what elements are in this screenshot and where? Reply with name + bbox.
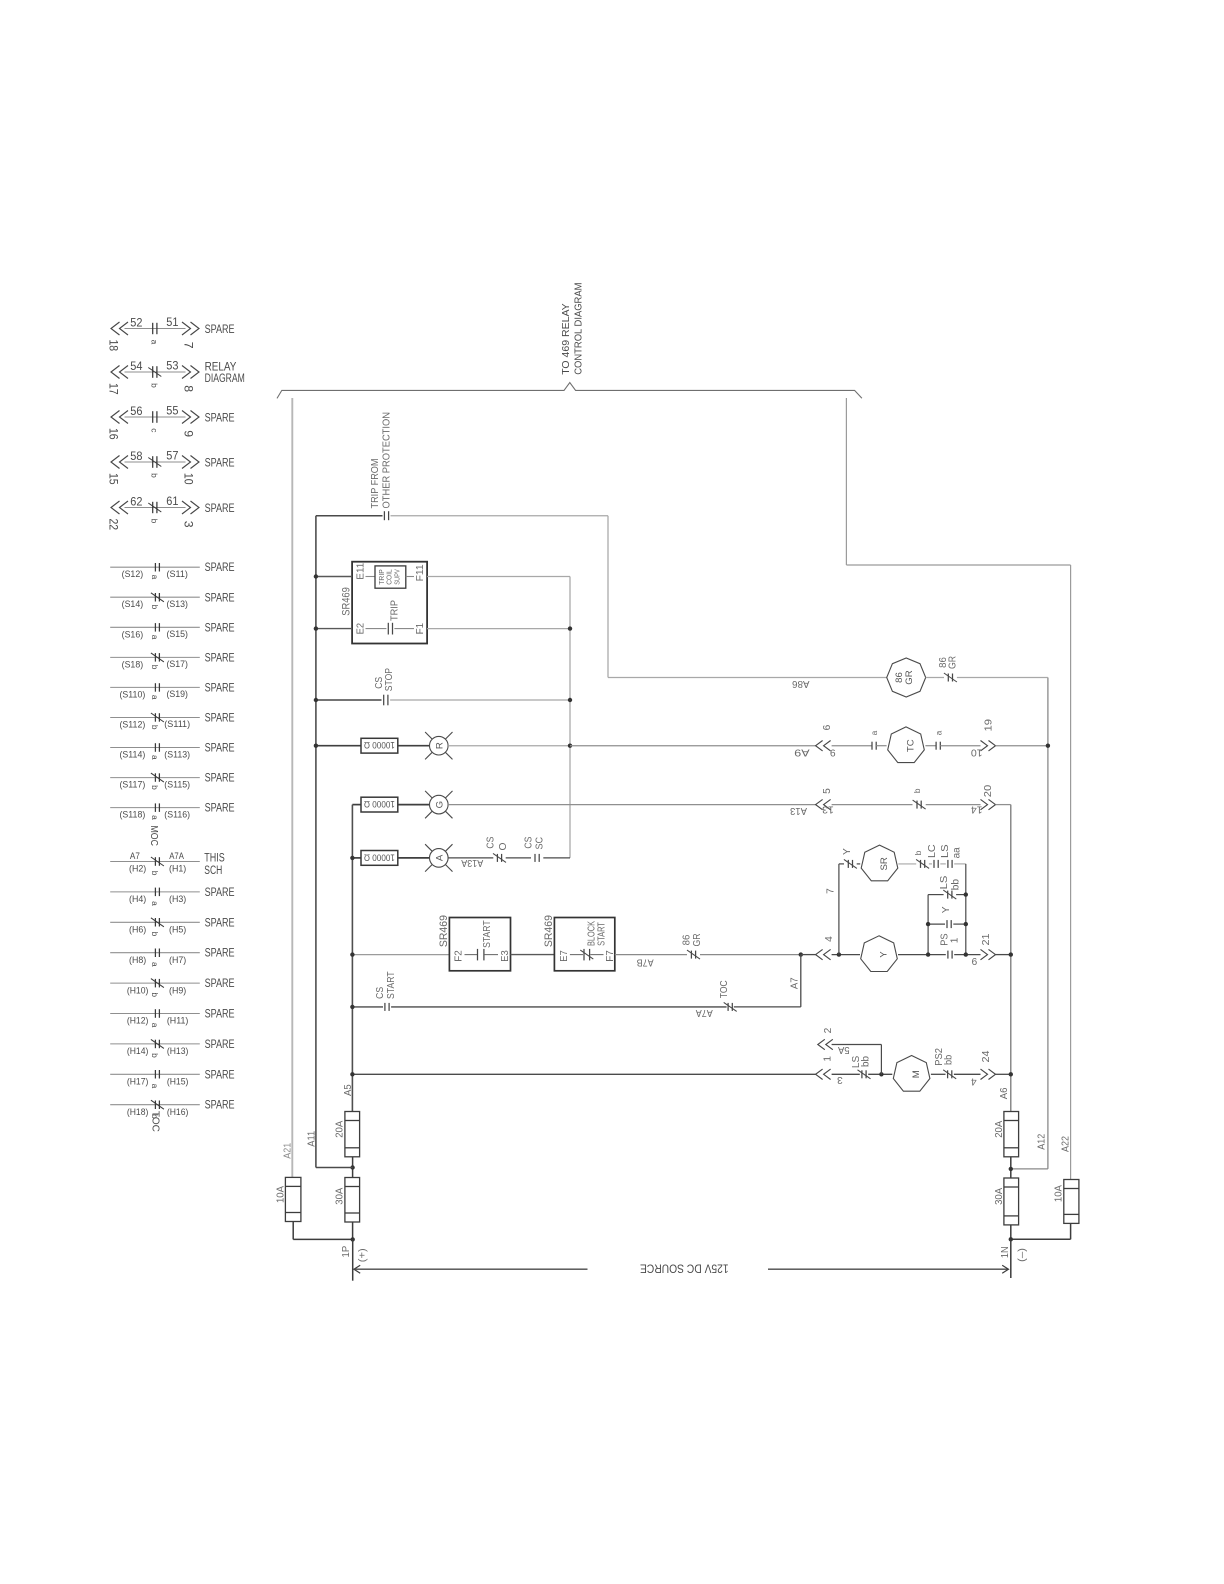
svg-text:SPARE: SPARE	[205, 741, 235, 755]
plug arrow G row right	[981, 799, 996, 809]
svg-text:(H3): (H3)	[169, 893, 186, 904]
svg-text:LC: LC	[927, 844, 938, 858]
wire SR row seg2	[898, 863, 916, 865]
svg-text:a: a	[150, 901, 160, 906]
svg-text:30A: 30A	[994, 1188, 1005, 1205]
svg-text:a: a	[933, 730, 943, 735]
wire TC row out	[996, 745, 1048, 747]
svg-text:SPARE: SPARE	[205, 410, 235, 424]
wire spare row (H14)/(H13)	[110, 1043, 200, 1045]
lamp A	[425, 844, 452, 871]
svg-text:Y: Y	[842, 848, 853, 855]
svg-text:TC: TC	[906, 739, 917, 752]
contact 54/53	[148, 366, 161, 378]
junction rail1010/Y row	[1009, 952, 1013, 956]
contact (S16)/(S15)	[155, 623, 159, 632]
svg-text:(H11): (H11)	[167, 1015, 189, 1026]
wire spare row (S18)/(S17)	[110, 656, 200, 658]
svg-text:b: b	[150, 605, 160, 610]
svg-text:(S19): (S19)	[166, 688, 188, 699]
svg-text:TOC: TOC	[719, 980, 730, 998]
wire meter to G lamp	[398, 804, 430, 806]
wire E7 to block contact	[570, 954, 583, 956]
wire spare row (H18)/(H16)	[110, 1104, 200, 1106]
wire R row from bus	[316, 745, 361, 747]
wire G row out	[996, 804, 1011, 806]
plug arrow TC row left	[816, 741, 831, 751]
svg-text:STOP: STOP	[384, 668, 395, 691]
wire 86GR feed vertical	[607, 516, 609, 678]
svg-text:4: 4	[824, 936, 835, 942]
wire M row out	[996, 1073, 1011, 1075]
junction trip net/F1	[568, 626, 572, 630]
svg-text:a: a	[869, 730, 879, 735]
svg-text:bb: bb	[943, 1055, 954, 1065]
svg-text:CS: CS	[486, 836, 497, 848]
contact (H12)/(H11)	[155, 1009, 159, 1018]
svg-text:CS: CS	[375, 987, 386, 999]
wire G row seg1	[832, 804, 913, 806]
plug arrow right row 57	[182, 456, 199, 469]
svg-text:(S113): (S113)	[164, 748, 190, 759]
svg-text:9: 9	[181, 430, 195, 437]
svg-text:SPARE: SPARE	[205, 1098, 235, 1112]
wire 86GR row left	[608, 677, 887, 679]
svg-text:(H15): (H15)	[167, 1076, 189, 1087]
plug arrow Y row right	[981, 949, 996, 959]
contact TRIP FROM OTHER PROTECTION	[384, 511, 388, 520]
svg-text:R: R	[434, 742, 445, 749]
wire A11 bus	[315, 516, 317, 1168]
relay box SR469 block start	[554, 918, 614, 971]
contact LS bb (M row)	[858, 1070, 871, 1079]
svg-text:a: a	[150, 962, 160, 967]
wire SR row seg3	[929, 863, 932, 865]
off-page bracket TO 469 RELAY CONTROL DIAGRAM	[277, 383, 862, 399]
wire spare row 52/51	[125, 328, 186, 330]
fuse 30A right	[1004, 1178, 1019, 1225]
svg-text:bb: bb	[860, 1056, 871, 1067]
wire right rail (SR net)	[965, 864, 967, 955]
contact TRIP (SR469)	[388, 623, 392, 635]
junction A11/CS STOP	[314, 698, 318, 702]
svg-text:SPARE: SPARE	[205, 771, 235, 785]
wire 125V DC source right	[768, 1268, 1008, 1270]
wire meter to R lamp	[398, 745, 430, 747]
fuse 30A left	[345, 1178, 360, 1223]
plug arrow right row 61	[182, 501, 199, 514]
svg-text:SPARE: SPARE	[205, 1007, 235, 1021]
wire M row from bus	[352, 1073, 815, 1075]
contact 56/55	[153, 411, 157, 423]
svg-text:G: G	[434, 801, 445, 808]
contact BLOCK START	[580, 949, 593, 961]
contact (H6)/(H5)	[151, 918, 164, 927]
svg-text:(H10): (H10)	[127, 984, 149, 995]
svg-text:(H1): (H1)	[169, 863, 186, 874]
svg-text:b: b	[149, 519, 159, 524]
svg-text:8: 8	[181, 385, 195, 392]
svg-text:SPARE: SPARE	[205, 801, 235, 815]
svg-text:a: a	[150, 755, 160, 760]
contact (S110)/(S19)	[155, 683, 159, 692]
svg-text:9: 9	[971, 955, 977, 966]
node 1P	[351, 1237, 355, 1241]
junction Y contact/left rail	[926, 922, 930, 926]
svg-text:SR469: SR469	[438, 915, 450, 947]
wire left rail (SR net)	[927, 895, 929, 955]
junction A5/M row	[350, 1072, 354, 1076]
svg-text:5A: 5A	[838, 1044, 850, 1055]
svg-text:(–): (–)	[1017, 1248, 1028, 1262]
wire M row seg3	[931, 1073, 946, 1075]
wire 20A right down	[1010, 1157, 1012, 1178]
wire TOC row right	[734, 1006, 801, 1008]
wire right rail 1010	[1010, 805, 1012, 1112]
wire TOC to CS START	[391, 1006, 726, 1008]
wire Y row arrows to coil	[832, 954, 860, 956]
contact 58/57	[148, 456, 161, 468]
svg-text:a: a	[150, 635, 160, 640]
contact LS bb	[943, 890, 956, 899]
svg-text:56: 56	[130, 404, 142, 418]
wire A lamp to CS O	[448, 857, 493, 859]
svg-text:(S111): (S111)	[164, 718, 190, 729]
junction A11/fuse string	[350, 1165, 354, 1169]
svg-text:SPARE: SPARE	[205, 680, 235, 694]
svg-text:10000 Ω: 10000 Ω	[364, 798, 395, 809]
svg-text:SPARE: SPARE	[205, 560, 235, 574]
wire A5 bus	[351, 805, 353, 1112]
svg-text:b: b	[912, 788, 922, 793]
wire E2 to trip contact	[366, 628, 387, 630]
svg-text:(S118): (S118)	[120, 809, 146, 820]
svg-text:MOC: MOC	[148, 826, 159, 846]
svg-text:1N: 1N	[1000, 1246, 1011, 1258]
junction LS bb/right rail	[964, 892, 968, 896]
wire F2 to start contact	[465, 954, 478, 956]
svg-text:61: 61	[166, 494, 178, 508]
plug arrow left row 54	[111, 366, 128, 379]
svg-text:13: 13	[822, 804, 834, 815]
svg-text:19: 19	[983, 719, 994, 732]
node A7/start row	[799, 952, 803, 956]
box TRIP COIL SUPV	[375, 566, 406, 588]
svg-text:7: 7	[181, 342, 195, 349]
svg-text:1: 1	[949, 937, 960, 943]
wire Y coil to PS1	[898, 954, 946, 956]
svg-text:START: START	[386, 971, 397, 999]
svg-text:(S115): (S115)	[164, 778, 190, 789]
svg-text:TRIP: TRIP	[389, 600, 400, 621]
contact 86 GR (start row)	[687, 950, 700, 959]
junction A12/right fuse string	[1009, 1167, 1013, 1171]
wire spare row (H12)/(H11)	[110, 1013, 200, 1015]
coil 86 GR lockout	[887, 658, 926, 697]
svg-text:F1: F1	[415, 623, 426, 635]
wire 86GR coil to contact	[926, 677, 944, 679]
svg-text:10000 Ω: 10000 Ω	[364, 851, 395, 862]
svg-text:(H13): (H13)	[167, 1045, 189, 1056]
relay box SR469 start	[449, 918, 510, 971]
svg-text:(H7): (H7)	[169, 954, 186, 965]
wire SR row seg0	[839, 863, 844, 865]
contact b (SR row)	[916, 859, 929, 868]
plug arrow left row 58	[111, 456, 128, 469]
wire spare row 62/61	[125, 507, 186, 509]
contact PS 1	[948, 951, 952, 959]
junction A11/E11	[314, 574, 318, 578]
svg-text:(H2): (H2)	[129, 863, 146, 874]
contact CS START	[385, 1003, 389, 1011]
svg-text:Y: Y	[879, 951, 890, 958]
wire M row seg2	[868, 1073, 892, 1075]
svg-text:(H9): (H9)	[169, 984, 186, 995]
svg-text:SUPV: SUPV	[392, 569, 401, 585]
svg-text:b: b	[150, 992, 160, 997]
svg-text:(H4): (H4)	[129, 893, 146, 904]
svg-text:62: 62	[130, 494, 142, 508]
svg-text:A11: A11	[307, 1130, 318, 1146]
contact 52/51	[153, 323, 157, 334]
plug arrow M row left	[816, 1069, 831, 1079]
svg-text:16: 16	[106, 428, 120, 440]
svg-text:1: 1	[822, 1056, 833, 1062]
svg-text:TO 469 RELAY: TO 469 RELAY	[561, 303, 572, 375]
junction A5/CS START	[350, 1005, 354, 1009]
wire TC row seg4	[940, 745, 980, 747]
contact PS2 bb	[943, 1070, 956, 1079]
svg-text:86: 86	[682, 934, 693, 945]
svg-text:E3: E3	[500, 950, 511, 962]
wire trip-from row right	[391, 515, 609, 517]
svg-text:bb: bb	[951, 879, 962, 891]
wire 86GR row right	[957, 677, 1048, 679]
svg-text:TRIP FROM: TRIP FROM	[370, 459, 381, 509]
contact START (SR469)	[478, 949, 484, 961]
junction rail1010/M row	[1009, 1072, 1013, 1076]
plug arrow M branch	[818, 1039, 833, 1049]
svg-text:b: b	[150, 665, 160, 670]
wire F11 out	[427, 576, 570, 578]
contact (S117)/(S115)	[151, 773, 164, 782]
svg-text:(S110): (S110)	[120, 688, 146, 699]
svg-text:55: 55	[166, 404, 178, 418]
contact (S12)/(S11)	[155, 563, 159, 572]
svg-text:18: 18	[106, 339, 120, 351]
svg-text:SPARE: SPARE	[205, 620, 235, 634]
wire SR row seg5	[954, 863, 966, 865]
svg-text:52: 52	[130, 315, 142, 329]
junction right rail/Y row	[964, 952, 968, 956]
wire 10A jog to 1P	[293, 1238, 353, 1240]
junction trip net/R row	[568, 744, 572, 748]
svg-text:a: a	[149, 340, 159, 345]
junction left rail/Y row	[926, 952, 930, 956]
contact (H4)/(H3)	[155, 888, 159, 897]
svg-text:F11: F11	[415, 564, 426, 581]
svg-text:GR: GR	[904, 670, 915, 684]
wire spare row (S14)/(S13)	[110, 596, 200, 598]
wire M row seg1	[832, 1073, 860, 1075]
svg-text:SPARE: SPARE	[205, 590, 235, 604]
svg-text:b: b	[150, 1053, 160, 1058]
junction A11/E2	[314, 626, 318, 630]
contact Y (aux)	[947, 920, 951, 928]
wire spare row (H6)/(H5)	[110, 921, 200, 923]
wire Y row left	[801, 954, 816, 956]
svg-text:(S13): (S13)	[166, 598, 188, 609]
svg-text:(S16): (S16)	[122, 628, 144, 639]
svg-text:A7B: A7B	[636, 956, 653, 967]
wire spare row (S117)/(S115)	[110, 777, 200, 779]
svg-text:53: 53	[166, 359, 178, 373]
svg-text:E7: E7	[559, 950, 570, 962]
svg-text:(S11): (S11)	[166, 568, 188, 579]
svg-text:M: M	[911, 1070, 922, 1078]
wire E2 row from bus	[316, 628, 352, 630]
junction SR branch	[837, 952, 841, 956]
svg-text:15: 15	[106, 473, 120, 485]
contact LC	[934, 860, 938, 868]
coil M	[893, 1056, 930, 1092]
wire block contact to F7	[590, 954, 603, 956]
svg-text:10A: 10A	[276, 1186, 287, 1203]
contact a (TC left)	[872, 742, 876, 750]
svg-text:57: 57	[166, 449, 178, 463]
svg-text:(S14): (S14)	[122, 598, 144, 609]
contact (S112)/(S111)	[151, 713, 164, 722]
junction A11/R row	[314, 744, 318, 748]
contact CS STOP	[384, 695, 388, 706]
svg-text:b: b	[150, 871, 160, 876]
svg-text:b: b	[149, 383, 159, 388]
svg-text:(H18): (H18)	[127, 1106, 149, 1117]
wire spare row (S110)/(S19)	[110, 686, 200, 688]
svg-text:E11: E11	[355, 562, 366, 579]
svg-text:E2: E2	[355, 623, 366, 635]
svg-text:22: 22	[106, 518, 120, 530]
wire trip contact to F1	[394, 628, 414, 630]
wire 1N tail	[1010, 1239, 1012, 1278]
svg-text:51: 51	[166, 315, 178, 329]
wire 10A right jog	[1011, 1238, 1071, 1240]
svg-text:9: 9	[830, 746, 836, 757]
svg-text:20: 20	[983, 784, 994, 797]
svg-text:A22: A22	[1061, 1136, 1072, 1152]
svg-text:10: 10	[971, 746, 983, 757]
coil TC	[888, 727, 925, 763]
svg-text:OTHER PROTECTION: OTHER PROTECTION	[381, 412, 392, 509]
svg-text:2: 2	[823, 1027, 834, 1033]
wire A21 riser	[291, 398, 293, 1177]
plug arrow M row right	[981, 1069, 996, 1079]
wire spare row 58/57	[125, 461, 186, 463]
svg-text:54: 54	[130, 359, 142, 373]
wire PS1 to arrows	[954, 954, 980, 956]
coil SR	[861, 845, 898, 881]
svg-text:(S116): (S116)	[164, 808, 190, 819]
wire trip-from row left	[316, 515, 383, 517]
svg-text:SR: SR	[879, 857, 890, 870]
contact 86 GR	[944, 673, 957, 682]
svg-text:(H16): (H16)	[167, 1106, 189, 1117]
svg-text:10: 10	[181, 473, 195, 485]
wire meter to A lamp	[398, 857, 430, 859]
arrowhead 1P	[354, 1265, 360, 1273]
contact (S118)/(S116)	[155, 803, 159, 812]
wire M branch horizontal	[832, 1044, 882, 1046]
junction A12/TC row	[1046, 744, 1050, 748]
svg-text:SPARE: SPARE	[205, 501, 235, 515]
wire CS SC to trip net	[543, 857, 570, 859]
fuse 10A right	[1064, 1180, 1079, 1224]
junction M branch	[879, 1072, 883, 1076]
svg-text:A7: A7	[790, 977, 801, 989]
svg-text:DIAGRAM: DIAGRAM	[205, 371, 245, 385]
svg-text:LS: LS	[940, 844, 951, 858]
svg-text:SR469: SR469	[340, 587, 352, 616]
svg-text:10000 Ω: 10000 Ω	[364, 739, 395, 750]
wire LS bb row seg2	[956, 894, 966, 896]
svg-text:A7A: A7A	[696, 1007, 713, 1018]
svg-text:a: a	[150, 1084, 160, 1089]
svg-text:b: b	[150, 932, 160, 937]
svg-text:(S114): (S114)	[120, 749, 146, 760]
contact a (TC right)	[936, 742, 940, 750]
wire spare row (H2)/(H1)	[110, 861, 200, 863]
svg-text:(H5): (H5)	[169, 924, 186, 935]
svg-text:(H8): (H8)	[129, 954, 146, 965]
svg-text:A12: A12	[1036, 1134, 1047, 1150]
svg-text:a: a	[150, 815, 160, 820]
wire R row to TC	[570, 745, 816, 747]
contact b (G row)	[913, 800, 926, 809]
contact LS aa	[948, 860, 952, 868]
wire SR branch vertical	[838, 864, 840, 955]
wire SR row seg4	[940, 863, 946, 865]
wire A22 riser	[1070, 565, 1072, 1180]
svg-text:A21: A21	[283, 1143, 294, 1159]
svg-text:SPARE: SPARE	[205, 885, 235, 899]
svg-text:SPARE: SPARE	[205, 946, 235, 960]
contact (S114)/(S113)	[155, 743, 159, 752]
svg-text:START: START	[482, 920, 493, 948]
wire R lamp to trip net	[448, 745, 570, 747]
contact (H17)/(H15)	[155, 1070, 159, 1079]
contact (H18)/(H16)	[151, 1100, 164, 1109]
plug arrow left row 56	[111, 411, 128, 424]
wire E11 row from bus	[316, 576, 352, 578]
wire A12 jog	[1011, 1168, 1048, 1170]
wire spare row (S112)/(S111)	[110, 717, 200, 719]
wire spare row (S114)/(S113)	[110, 747, 200, 749]
svg-text:A86: A86	[792, 678, 810, 689]
svg-text:10A: 10A	[1054, 1185, 1065, 1202]
wire spare row 56/55	[125, 416, 186, 418]
wire CS O to CS SC	[506, 857, 531, 859]
svg-text:20A: 20A	[994, 1121, 1005, 1138]
svg-text:3: 3	[837, 1074, 843, 1085]
wire spare row 54/53	[125, 371, 186, 373]
svg-text:14: 14	[971, 804, 983, 815]
svg-text:(S18): (S18)	[122, 658, 144, 669]
svg-text:CONTROL DIAGRAM: CONTROL DIAGRAM	[574, 283, 585, 375]
svg-text:SPARE: SPARE	[205, 1037, 235, 1051]
svg-text:SC: SC	[535, 837, 546, 850]
lamp R	[425, 732, 452, 759]
svg-text:(H12): (H12)	[127, 1015, 149, 1026]
